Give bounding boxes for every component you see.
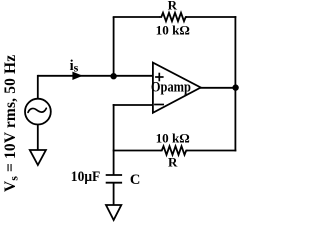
svg-text:10μF: 10μF: [71, 169, 101, 185]
wire: capacitor to ground: [113, 183, 115, 205]
wire: bottom horizontal right segment: [187, 150, 237, 152]
wire: op-amp output to right rail: [200, 87, 235, 89]
svg-text:10 kΩ: 10 kΩ: [156, 22, 190, 37]
wire: inverting input horizontal (y=105): [113, 104, 153, 106]
node: output junction dot: [232, 84, 238, 90]
op-amp + input symbol: [155, 73, 164, 82]
current arrow i_s (arrowhead): [72, 72, 82, 80]
svg-text:10 kΩ: 10 kΩ: [156, 130, 190, 145]
node: junction dot at inverting branch tap: [110, 73, 116, 79]
svg-text:R: R: [168, 155, 178, 170]
wire: top-left vertical (node A up to top wire): [113, 17, 115, 77]
wire: source top vertical: [37, 75, 39, 99]
svg-text:C: C: [130, 172, 140, 188]
resistor R (feedback, top): [160, 13, 188, 21]
AC source sine symbol: [28, 108, 46, 112]
wire: source to non-inverting input (y=75): [38, 75, 153, 77]
AC source V_s circle: [25, 99, 51, 125]
op-amp U1 triangle: [153, 63, 201, 113]
op-amp − input symbol: [154, 104, 164, 106]
wire: top horizontal right segment: [186, 16, 236, 18]
svg-text:Opamp: Opamp: [151, 78, 191, 94]
capacitor C top plate: [106, 174, 122, 176]
ground (below capacitor): [106, 205, 121, 220]
wire: inverting branch vertical down to bottom wire: [113, 104, 115, 150]
wire: bottom horizontal left segment: [113, 150, 161, 152]
wire: right vertical rail: [234, 16, 236, 151]
wire: vertical from bottom wire down to capacitor: [113, 151, 115, 176]
svg-text:R: R: [168, 0, 178, 13]
ground (below source): [30, 150, 46, 165]
capacitor C bottom plate: [106, 182, 122, 184]
resistor R (bottom): [160, 146, 188, 155]
svg-text:is: is: [70, 58, 79, 74]
svg-text:Vs = 10V rms, 50 Hz: Vs = 10V rms, 50 Hz: [2, 55, 21, 192]
wire: source bottom vertical: [37, 125, 39, 151]
wire: top horizontal left segment: [113, 16, 160, 18]
